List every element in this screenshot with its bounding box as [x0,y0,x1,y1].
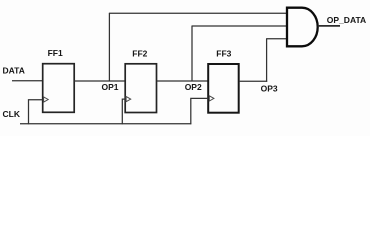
node OP1 riser wire [108,13,110,81]
flip-flop FF3 [208,64,239,113]
wire FF2 Q to FF3 D [157,80,209,82]
svg-text:OP1: OP1 [102,82,119,92]
svg-text:OP_DATA: OP_DATA [327,15,366,25]
clock pin triangle FF1 [44,97,49,102]
wire CLK bus [20,123,191,125]
wire FF3 Q to OP3 corner [239,80,267,82]
wire rail from OP1 to AND gate input 1 [109,12,287,14]
svg-text:DATA: DATA [3,65,25,75]
node OP3 riser wire [266,39,268,82]
wire AND gate output OP_DATA [318,25,340,27]
AND gate U1 [287,8,318,47]
wire DATA to FF1 D input [12,80,43,82]
wire CLK stub to FF1 clock [29,100,43,125]
svg-text:FF3: FF3 [216,49,231,59]
flip-flop FF2 [125,64,156,113]
clock pin triangle FF3 [209,96,214,101]
wire CLK stub to FF3 clock [191,98,208,124]
svg-text:OP3: OP3 [261,83,278,93]
wire rail from OP3 to AND gate input 3 [266,38,287,40]
svg-text:FF2: FF2 [132,49,147,59]
svg-text:OP2: OP2 [185,82,202,92]
wire CLK stub to FF2 clock [122,99,125,124]
wire rail from OP2 to AND gate input 2 [192,25,288,27]
wire FF1 Q to FF2 D [74,80,125,82]
flip-flop FF1 [43,64,74,113]
svg-text:CLK: CLK [3,109,21,119]
node OP2 riser wire [191,26,193,82]
svg-text:FF1: FF1 [48,48,63,58]
clock pin triangle FF2 [126,97,131,102]
